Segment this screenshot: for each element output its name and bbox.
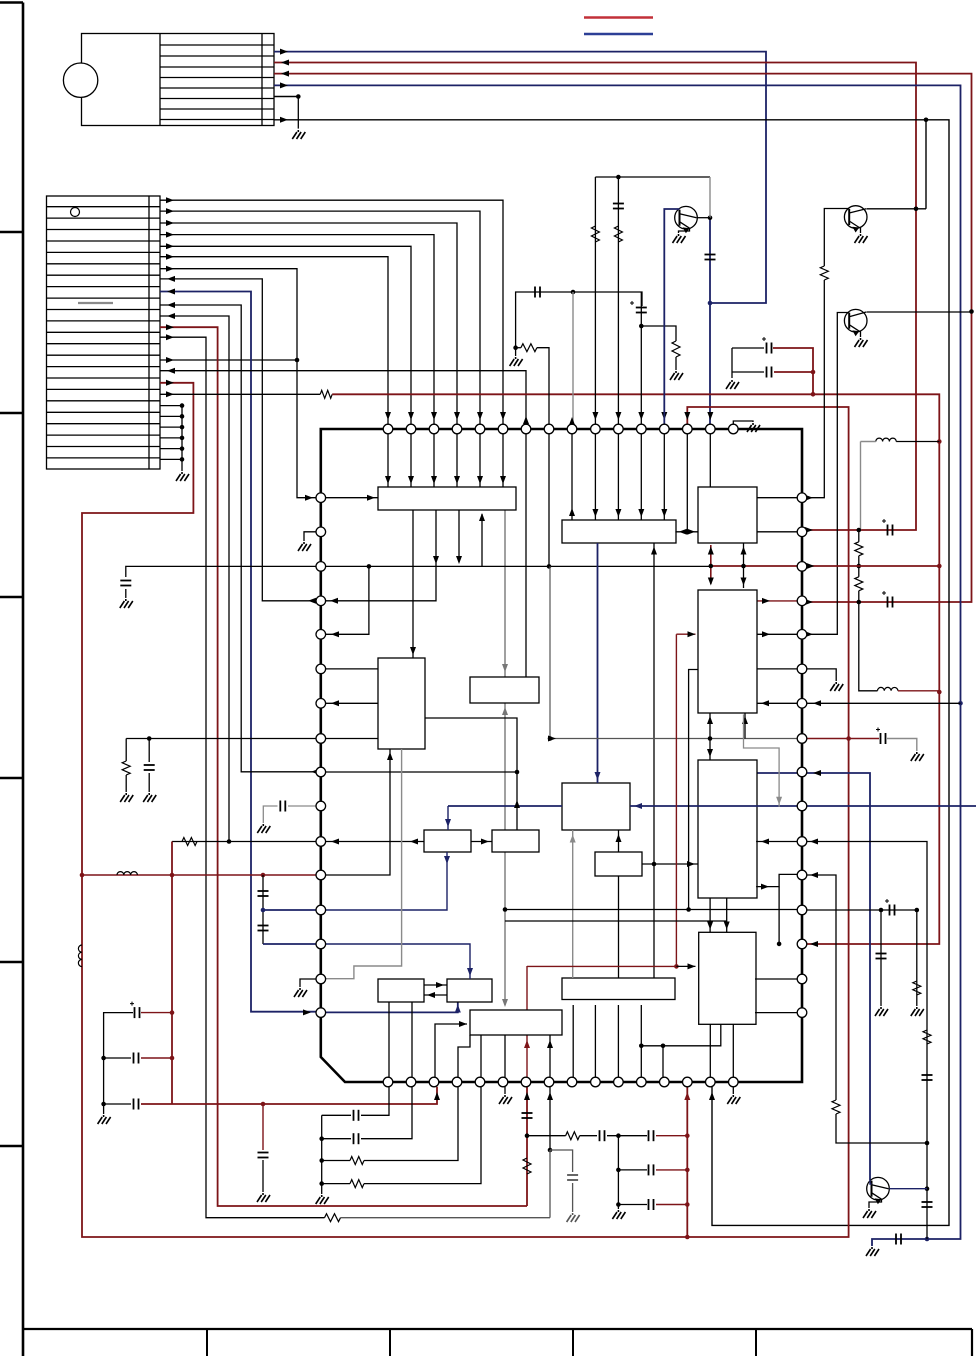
wire internal B1 to B7 bbox=[412, 510, 414, 658]
arrow into left pin 601 bbox=[308, 598, 316, 604]
wire internal top pin 595.4 to B2 bbox=[594, 434, 596, 520]
junction resistor node bbox=[513, 345, 518, 350]
inductor L4 bbox=[117, 872, 137, 875]
arrow into B2 at 595.4 bbox=[592, 509, 598, 517]
CN1 row line 6 bbox=[160, 98, 274, 100]
IC U1 bottom pin 6 bbox=[498, 1077, 508, 1087]
wire R12 gnd bbox=[125, 775, 127, 792]
arrow CN2 row5 bbox=[166, 243, 174, 249]
block B10 bbox=[424, 830, 471, 852]
resistor R11 bbox=[913, 981, 921, 995]
wire pin-595 vertical bbox=[594, 177, 596, 424]
junction 172 crossing bbox=[170, 873, 175, 878]
IC U1 left pin 11 bbox=[316, 837, 326, 847]
junction red 172 1058 bbox=[170, 1056, 175, 1061]
CN2 row line 18 bbox=[47, 400, 161, 402]
wire internal red bus bbox=[527, 965, 676, 967]
wire 263 gnd bbox=[262, 1160, 264, 1192]
ground G9 cluster bbox=[726, 380, 739, 389]
wire ladder column bbox=[617, 1136, 619, 1209]
arrow into bottom pin 687 bbox=[684, 1092, 690, 1100]
ground G20 bbox=[257, 824, 270, 833]
wire internal stub to B6 bbox=[676, 965, 695, 967]
wire internal y921 to B6 bbox=[505, 920, 727, 922]
capacitor C7 bbox=[767, 367, 772, 378]
CN1 row line 8 bbox=[160, 119, 274, 121]
CN1 pin column divider bbox=[261, 34, 263, 126]
wire bottom pin 733 gnd bbox=[732, 1087, 734, 1094]
wire internal top pin 618.4 to B2 bbox=[617, 434, 619, 520]
junction pin687 link bbox=[685, 530, 690, 535]
IC U1 bottom pin 9 bbox=[567, 1077, 577, 1087]
arrow CN2 row feeder bbox=[167, 302, 175, 308]
ground G3 CN2 bus bbox=[176, 472, 189, 481]
junction Q3 collector on red bbox=[969, 309, 974, 314]
arrow into top pin 411 bbox=[408, 412, 414, 420]
wire internal gray B9 to B15 bbox=[572, 830, 574, 978]
junction pin-641 r-branch bbox=[639, 324, 644, 329]
wire CN2 row13 stub bbox=[160, 359, 297, 361]
wire Q2 collector branch bbox=[925, 120, 927, 209]
wire C15 gnd bbox=[125, 589, 127, 598]
wire gray 550 to resistor line bbox=[549, 1150, 551, 1218]
junction red B6 stub bbox=[674, 964, 679, 969]
title block divider 1 bbox=[206, 1329, 208, 1356]
junction x779 pin-944 bbox=[777, 942, 782, 947]
arrow CN2 row11 bbox=[166, 324, 174, 330]
arrow B5 875 out bbox=[761, 884, 769, 890]
arrow into IC bottom pin 712 bbox=[709, 1092, 715, 1100]
resistor R7 bbox=[855, 542, 863, 556]
wire CN2 row9 navy long drop bbox=[160, 292, 316, 1012]
wire CN2 row17 stub bbox=[160, 405, 182, 407]
wire C7 to red bbox=[774, 371, 813, 373]
wire CN2 row8 to IC pin 601 bbox=[160, 279, 316, 601]
wire internal B4 to right pin 600 red bbox=[756, 600, 797, 602]
block B4 bbox=[698, 590, 757, 713]
junction CN2 bus 21 bbox=[180, 446, 185, 451]
arrow B4 pin600 bbox=[762, 598, 770, 604]
CN1 row line 3 bbox=[160, 66, 274, 68]
wire CN2 row11 red bottom loop bbox=[160, 327, 527, 1206]
arrow into top pin 710 bbox=[707, 412, 713, 420]
wire internal pin 481 bbox=[480, 1035, 482, 1077]
wire resistor stub left bbox=[516, 347, 521, 349]
wire R3 to ground bbox=[675, 357, 677, 370]
capacitor C1 on navy drop bbox=[705, 255, 716, 260]
wire Q4 base bbox=[870, 1180, 872, 1184]
CN2 row line 8 bbox=[47, 286, 161, 288]
wire internal 482 up bbox=[481, 514, 483, 566]
IC U1 bottom pin 4 bbox=[452, 1077, 462, 1087]
capacitor C27 bbox=[649, 1130, 654, 1141]
capacitor C23 bbox=[258, 1153, 269, 1158]
junction 263 910 bbox=[261, 908, 266, 913]
transistor Q2 bbox=[844, 206, 867, 229]
wire L3 to red bbox=[898, 690, 939, 692]
IC U1 left pin 1 bbox=[316, 493, 326, 503]
arrow into B4 bottom 710 bbox=[707, 716, 713, 724]
wire C20 left to cluster bbox=[104, 1013, 133, 1114]
wire internal gray pin-979 to B7 bbox=[326, 749, 402, 979]
IC U1 bottom pin 2 bbox=[406, 1077, 416, 1087]
arrow into left pin 497 bbox=[305, 495, 313, 501]
arrow into top pin 595 bbox=[592, 412, 598, 420]
junction jumper node bbox=[295, 358, 300, 363]
capacitor C12 on x927 bbox=[922, 1075, 933, 1080]
wire bank row3 bbox=[322, 1160, 350, 1162]
IC U1 bottom pin 5 bbox=[475, 1077, 485, 1087]
arrow CN2 row2 bbox=[166, 208, 174, 214]
arrow out of B2 top bbox=[569, 508, 575, 516]
wire internal x779 drop bbox=[778, 887, 780, 944]
arrow into bottom pin 435 bbox=[434, 1092, 440, 1100]
arrow CN2 row1 bbox=[166, 197, 174, 203]
arrow into top pin 641 bbox=[638, 412, 644, 420]
wire internal B5-B6 link 727 bbox=[726, 898, 728, 932]
junction CN2 bus 20 bbox=[180, 436, 185, 441]
CN2 row line 9 bbox=[47, 297, 161, 299]
ground G23 bbox=[257, 1193, 270, 1202]
junction x654 B9b tap bbox=[652, 862, 657, 867]
wire internal 710 B4 to B5 bbox=[709, 713, 711, 760]
IC U1 left pin 13 bbox=[316, 905, 326, 915]
arrow into B5 top 710 bbox=[707, 749, 713, 757]
wire bank row4 bbox=[322, 1183, 350, 1185]
arrow link745 into B4 top bbox=[741, 578, 747, 586]
wire CN2 row3 to IC top pin 457 bbox=[160, 223, 457, 424]
arrow B12b-B12a bbox=[427, 992, 435, 998]
resistor R2 bbox=[521, 344, 537, 352]
CN1 row line 5 bbox=[160, 87, 274, 89]
capacitor C31 bbox=[354, 1133, 359, 1144]
ground G14 Q4 bbox=[863, 1209, 876, 1218]
arrow CN2 row4 bbox=[166, 232, 174, 238]
wire internal pin497 to B1 bbox=[326, 497, 378, 499]
wire internal B3 to right pin 532 bbox=[757, 531, 797, 533]
arrow into B4 bottom 745 bbox=[742, 716, 748, 724]
junction x550 y738 bbox=[548, 736, 553, 741]
CN2 row line 5 bbox=[47, 251, 161, 253]
arrow into B1 at 411 bbox=[408, 476, 414, 484]
arrow into B1 left bbox=[367, 495, 375, 501]
wire internal top pin 457 to B1 bbox=[456, 434, 458, 487]
junction CN2 bus 18 bbox=[180, 414, 185, 419]
wire right pin 773 navy to Q4 bbox=[757, 773, 870, 1180]
border frame left edge bbox=[22, 3, 25, 1356]
wire cap column 263 bbox=[262, 875, 264, 944]
CN2 row line 10 bbox=[47, 309, 161, 311]
IC U1 bottom pin 3 bbox=[429, 1077, 439, 1087]
wire internal B6 to bottom pin 710 bbox=[709, 1024, 711, 1077]
wire cluster gnd stub bbox=[731, 372, 733, 378]
arrow into B3 bottom bbox=[741, 547, 747, 555]
junction navy bottom cap node bbox=[925, 1237, 930, 1242]
arrow CN2 row7 bbox=[166, 266, 174, 272]
wire internal top pin 503 to B1 bbox=[502, 434, 504, 487]
resistor R16 on gray line bbox=[325, 1214, 341, 1222]
arrow CN2 row3 bbox=[166, 220, 174, 226]
IC U1 right pin 9 bbox=[797, 767, 807, 777]
wire C17 gnd bbox=[263, 806, 277, 823]
wire internal B2-B3 link bbox=[675, 531, 698, 533]
resistor R3 bbox=[672, 341, 680, 357]
wire branch to R3 bbox=[641, 326, 676, 341]
wire internal pin841 to B10 bbox=[326, 841, 424, 843]
IC U1 left pin 15 bbox=[316, 974, 326, 984]
wire C21 red bbox=[141, 1057, 172, 1059]
wire C10 to ground gray bbox=[887, 739, 917, 752]
wire internal top pin 641.3 to B2 bbox=[640, 434, 642, 520]
CN2 row line 20 bbox=[47, 423, 161, 425]
wire left pin 567 cap bbox=[126, 566, 316, 577]
IC U1 bottom pin 15 bbox=[706, 1077, 716, 1087]
wire internal B2 to B15 column bbox=[653, 543, 655, 978]
wire internal navy y806 bbox=[448, 805, 562, 807]
ground G1 bottom navy bbox=[866, 1247, 879, 1256]
wire C16 gnd bbox=[148, 773, 150, 792]
arrow into top pin 434 bbox=[431, 412, 437, 420]
wire L2 right bbox=[896, 441, 939, 443]
junction 618 1204 bbox=[616, 1202, 621, 1207]
IC U1 left pin 2 bbox=[316, 527, 326, 537]
arrow CN1 pin3 bbox=[281, 71, 289, 77]
wire right pin 875 to bottom resistor bbox=[807, 875, 836, 1100]
wire CN2 row2 to IC top pin 480 bbox=[160, 211, 480, 424]
capacitor C19 bbox=[258, 926, 269, 931]
IC U1 bottom pin 1 bbox=[383, 1077, 393, 1087]
wire res branch 916 bbox=[916, 910, 918, 1006]
junction red coil1 node bbox=[937, 439, 942, 444]
capacitor C15 bbox=[120, 581, 131, 586]
arrow into left pin 772 bbox=[311, 769, 319, 775]
resistor R8 bbox=[855, 577, 863, 591]
arrow into B2 bottom bbox=[651, 547, 657, 555]
wire internal top pin 388 to B1 bbox=[387, 434, 389, 487]
junction 618 1170 bbox=[616, 1168, 621, 1173]
capacitor C4 electrolytic on pin-641 line bbox=[630, 301, 647, 313]
wire internal B6 to bottom pin 733 bbox=[732, 1024, 734, 1077]
block B2 bbox=[562, 520, 676, 543]
yoke coil circle bbox=[63, 63, 97, 97]
block B11 bbox=[492, 830, 539, 852]
wire cap C22 row bbox=[104, 1103, 131, 1105]
arrow right pin 497 bbox=[805, 495, 813, 501]
junction trunk 909 bbox=[503, 907, 508, 912]
resistor R17 bbox=[566, 1132, 580, 1140]
IC U1 left pin 4 bbox=[316, 596, 326, 606]
wire internal B12a-B12b link2 bbox=[424, 994, 447, 996]
resistor R1 on red line bbox=[320, 390, 332, 398]
wire internal navy B9 right to pin 806 bbox=[630, 805, 802, 807]
wire CN1 pin2 red to IC right pin 532 bbox=[274, 63, 916, 531]
wire internal B4 to right pin 703 bbox=[756, 702, 797, 704]
wire internal B3-B4 link 745 bbox=[743, 543, 745, 588]
IC U1 right pin 8 bbox=[797, 734, 807, 744]
wire red long segment bbox=[332, 394, 939, 944]
arrow into right pin 944 bbox=[810, 941, 818, 947]
wire ladder row2 bbox=[618, 1169, 647, 1171]
junction navy node A bbox=[708, 301, 713, 306]
IC U1 top pin 9 bbox=[567, 424, 577, 434]
CN1 row line 4 bbox=[160, 77, 274, 79]
wire internal pin 738 stub bbox=[326, 738, 378, 740]
IC U1 right pin 2 bbox=[797, 527, 807, 537]
ground G26 bbox=[567, 1213, 580, 1222]
capacitor C21 bbox=[134, 1053, 139, 1064]
wire internal staircase pin 458 bbox=[458, 1035, 470, 1077]
IC U1 bottom pin 12 bbox=[637, 1077, 647, 1087]
CN2 row line 19 bbox=[47, 411, 161, 413]
IC U1 right pin 3 bbox=[797, 562, 807, 572]
wire internal top pin 434 to B1 bbox=[433, 434, 435, 487]
IC U1 top pin 1 bbox=[383, 424, 393, 434]
junction red caps node bbox=[811, 392, 816, 397]
capacitor C2 bottom navy bbox=[896, 1234, 901, 1245]
IC U1 top pin 12 bbox=[637, 424, 647, 434]
wire gray line to 550 bbox=[341, 1217, 551, 1219]
wire cap branch 881 bbox=[880, 910, 882, 1006]
arrow into B2 at 664.3 bbox=[661, 509, 667, 517]
arrow into B12b bottom bbox=[455, 1005, 461, 1013]
junction C20 red bbox=[170, 1010, 175, 1015]
wire C20 to red bbox=[141, 1012, 172, 1014]
wire right pin 738 red bbox=[807, 738, 879, 740]
wire Q3 base to right pin 635 bbox=[807, 313, 849, 635]
wire gray branch cap bbox=[550, 1150, 573, 1172]
arrow gray trunk into B13 bbox=[502, 999, 508, 1007]
wire internal pin 669 bbox=[326, 668, 378, 670]
IC U1 right pin 4 bbox=[797, 596, 807, 606]
wire CN2 ground bus bbox=[181, 406, 183, 471]
junction pin-634 bus tap bbox=[367, 564, 372, 569]
capacitor C3 bbox=[535, 287, 540, 298]
IC U1 right pin 13 bbox=[797, 905, 807, 915]
wire internal pin 435 to B13 bbox=[435, 1024, 467, 1077]
wire CN1 pin5 ground net bbox=[274, 96, 298, 98]
capacitor C13 electrolytic pin-910 bbox=[885, 899, 895, 916]
wire internal B5-B6 link 710 bbox=[709, 898, 711, 932]
arrow CN2 row14 bbox=[167, 368, 175, 374]
junction CN1 pin6 Q2 branch bbox=[924, 118, 929, 123]
ground G16 pin-532 bbox=[298, 542, 311, 551]
wire internal 745 up to B4 bbox=[744, 713, 746, 739]
wire internal B15 drop 595 bbox=[594, 1005, 596, 1077]
wire cap C21 row bbox=[104, 1057, 131, 1059]
CN2 row line 15 bbox=[47, 366, 161, 368]
arrow red into B4 left bbox=[688, 631, 696, 637]
arrow B4 pin703 bbox=[761, 700, 769, 706]
junction gray drop node bbox=[571, 290, 576, 295]
junction red 687 1170 bbox=[685, 1168, 690, 1173]
ground G22 cluster bbox=[98, 1115, 111, 1124]
capacitor C5 bbox=[613, 204, 624, 209]
CN1 inner divider left bbox=[159, 34, 161, 126]
IC U1 outline bbox=[321, 429, 802, 1082]
junction pin-910 cap branch bbox=[879, 908, 884, 913]
wire gray to Q1 collector bbox=[709, 177, 711, 218]
wire internal pin875 to B7 bbox=[326, 749, 390, 875]
ground G25 pin-733 bbox=[727, 1095, 740, 1104]
wire internal y909 to pin 910 bbox=[505, 909, 802, 911]
IC U1 bottom pin 16 bbox=[729, 1077, 739, 1087]
junction B15 drop tap bbox=[639, 1044, 644, 1049]
arrow out of top pin 572 bbox=[569, 417, 575, 425]
wire rc ladder row1 bbox=[527, 1135, 566, 1137]
wire internal B15 drop 641 bbox=[640, 1005, 642, 1077]
arrow into B13 left bbox=[459, 1021, 467, 1027]
IC U1 bottom pin 14 bbox=[683, 1077, 693, 1087]
arrow right pin 841 bbox=[810, 839, 818, 845]
arrow B5 pin841 bbox=[761, 839, 769, 845]
arrow CN1 pin4 bbox=[280, 82, 288, 88]
capacitor C11 bbox=[922, 1202, 933, 1207]
wire C16 branch bbox=[148, 739, 150, 763]
wire internal B4 to right pin 669 bbox=[756, 668, 797, 670]
border frame right stub bbox=[971, 1329, 973, 1356]
wire internal pin572 to B2 bbox=[571, 434, 573, 520]
wire left pin 806 cap bbox=[288, 805, 316, 807]
arrow CN2 row10 bbox=[167, 313, 175, 319]
IC U1 top pin 4 bbox=[452, 424, 462, 434]
wire Q2 emitter gnd bbox=[859, 228, 860, 234]
IC U1 left pin 9 bbox=[316, 767, 326, 777]
junction y738 710 bbox=[708, 736, 713, 741]
arrow into left pin 841 bbox=[331, 839, 339, 845]
arrow right pin 703 bbox=[813, 700, 821, 706]
junction link745 red bus bbox=[741, 564, 746, 569]
block B9b bbox=[595, 852, 642, 876]
arrow into B7 bottom bbox=[387, 752, 393, 760]
block B15 bbox=[562, 978, 675, 1000]
title block divider 3 bbox=[572, 1329, 574, 1356]
wire Q1 base navy bbox=[664, 209, 679, 424]
wire Q3 emitter gnd bbox=[859, 331, 860, 337]
wire chain R7 segment bbox=[858, 530, 860, 542]
border frame bottom edge bbox=[23, 1328, 972, 1330]
CN2 row line 3 bbox=[47, 229, 161, 231]
title block divider 2 bbox=[389, 1329, 391, 1356]
junction pin-910 res branch bbox=[915, 908, 920, 913]
IC U1 bottom pin 10 bbox=[591, 1077, 601, 1087]
wire bottom pin 505 gnd bbox=[504, 1087, 506, 1094]
arrow CN2 row16 bbox=[166, 391, 174, 397]
wire chain to coil2 bbox=[859, 591, 878, 691]
wire right pin 669 to ground bbox=[807, 669, 836, 681]
CN1 row line 2 bbox=[160, 55, 274, 57]
block B8 bbox=[470, 677, 539, 703]
ground G18 bbox=[120, 793, 133, 802]
junction 527 1135 bbox=[525, 1133, 530, 1138]
CN2 index circle bbox=[71, 208, 80, 217]
wire left pin 841 net bbox=[172, 841, 316, 843]
arrow right pin 566 bbox=[807, 563, 815, 569]
junction pin-663 tap bbox=[661, 1044, 666, 1049]
junction red 687 1204 bbox=[685, 1202, 690, 1207]
junction CN1 pin5 ground tap bbox=[296, 94, 301, 99]
wire pin-618 vertical bbox=[617, 177, 619, 424]
wire right pin 806 navy bbox=[807, 805, 976, 807]
junction bank 1160 bbox=[319, 1158, 324, 1163]
wire red below pin 527 bbox=[526, 1087, 528, 1206]
arrow B12a-B12b bbox=[436, 982, 444, 988]
inductor L1 on red loop bbox=[78, 945, 82, 967]
capacitor C9 electrolytic pin-600 bbox=[882, 591, 893, 608]
wire CN2 row5 to IC top pin 411 bbox=[160, 246, 411, 424]
wire internal pin 703 bbox=[326, 702, 378, 704]
arrow into B1 at 503 bbox=[500, 476, 506, 484]
capacitor C14 bbox=[876, 954, 887, 959]
